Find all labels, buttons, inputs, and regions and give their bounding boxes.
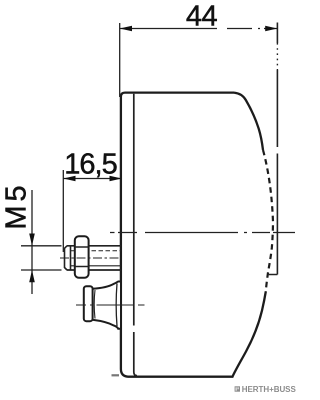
grommet flange bbox=[84, 286, 93, 321]
lamp base inner wall bbox=[134, 94, 137, 376]
dimension 44 extension line left bbox=[119, 23, 121, 97]
grommet centerline bbox=[76, 304, 145, 306]
scan mark near bottom corner bbox=[112, 374, 120, 376]
dimension 16,5 arrow right bbox=[110, 176, 122, 182]
hex nut chamfer line lower bbox=[75, 266, 89, 268]
dimension M5 extension line lower bbox=[21, 269, 62, 271]
dimension M5 arrow upper bbox=[29, 234, 35, 246]
bolt thread minor line lower bbox=[71, 265, 122, 267]
lens face step bbox=[269, 274, 278, 276]
stud end cap bbox=[65, 246, 71, 270]
dimension 44 line bbox=[120, 28, 278, 30]
hex nut chamfer line upper bbox=[75, 246, 89, 248]
svg-text:HERTH+BUSS: HERTH+BUSS bbox=[242, 385, 297, 394]
lamp body outline bbox=[121, 93, 266, 377]
dimension 44 arrow right bbox=[265, 26, 277, 32]
dimension 16,5 line bbox=[63, 178, 122, 180]
watermark logo icon bbox=[235, 386, 240, 391]
bolt stud outer lines bbox=[67, 246, 122, 270]
dimension 16,5 extension line left bbox=[62, 170, 64, 252]
dimension 44 arrow left bbox=[120, 26, 132, 32]
grommet body bbox=[93, 282, 122, 329]
grommet junction arc left bbox=[93, 290, 96, 319]
stud centerline bbox=[60, 257, 121, 259]
svg-text:16,5: 16,5 bbox=[64, 149, 116, 181]
lamp body shoulder bbox=[234, 93, 263, 150]
dimension M5 line vertical bbox=[31, 190, 33, 294]
lens face line bbox=[276, 23, 278, 275]
centerline main axis bbox=[110, 232, 295, 234]
bolt thread minor line upper (dashed) bbox=[71, 250, 122, 252]
dimension M5 extension line upper bbox=[21, 245, 62, 247]
grommet junction arc right bbox=[115, 284, 118, 327]
dimension 16,5 arrow left bbox=[63, 176, 75, 182]
svg-text:44: 44 bbox=[186, 1, 218, 33]
lamp body hidden edge (dashed arc) bbox=[263, 150, 273, 292]
dimension M5 arrow lower bbox=[29, 270, 35, 282]
svg-text:M5: M5 bbox=[0, 181, 32, 229]
hex nut bbox=[75, 236, 89, 277]
